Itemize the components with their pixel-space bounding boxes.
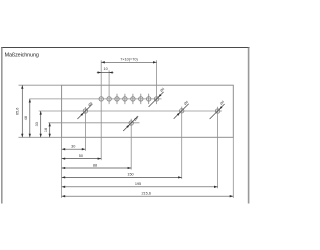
svg-text:195: 195 bbox=[135, 182, 141, 186]
svg-text:65,6: 65,6 bbox=[16, 108, 20, 115]
plate outline bbox=[62, 85, 234, 137]
svg-text:48: 48 bbox=[24, 116, 28, 120]
small hole 7 row1 bbox=[147, 97, 151, 101]
extension line hole1 vertical bbox=[100, 60, 102, 160]
leader hole B bbox=[123, 116, 139, 131]
centerline hole row 3 bbox=[48, 122, 139, 124]
hole A bbox=[83, 107, 87, 151]
svg-text:Ø4: Ø4 bbox=[133, 116, 139, 122]
leader small hole 8 bbox=[149, 87, 166, 107]
extension line hole8 vertical bbox=[156, 60, 158, 104]
leader hole D bbox=[210, 100, 226, 119]
hole C bbox=[180, 107, 184, 179]
dimension 65,6 bbox=[16, 85, 24, 137]
leader hole C bbox=[174, 100, 189, 119]
extension plate top edge left bbox=[19, 84, 62, 86]
dimension 48 bbox=[24, 99, 31, 137]
extension plate right edge down bbox=[232, 137, 234, 198]
dimension 195 bbox=[62, 182, 218, 188]
dimension 150 bbox=[62, 173, 182, 179]
svg-text:18: 18 bbox=[44, 128, 48, 132]
svg-text:Ø4: Ø4 bbox=[87, 101, 93, 107]
small hole 8 row1 bbox=[154, 97, 158, 101]
svg-text:Ø4: Ø4 bbox=[159, 87, 165, 93]
dimension 50 bbox=[62, 154, 102, 160]
hole B bbox=[129, 119, 133, 170]
svg-text:30: 30 bbox=[71, 145, 75, 149]
frame top border bbox=[1, 47, 250, 49]
svg-text:50: 50 bbox=[79, 154, 83, 158]
dimension 30 bbox=[62, 145, 86, 151]
small hole 3 row1 bbox=[115, 97, 119, 101]
leader hole A bbox=[77, 101, 93, 119]
svg-text:33: 33 bbox=[35, 122, 39, 126]
small hole 4 row1 bbox=[123, 97, 127, 101]
svg-text:88: 88 bbox=[93, 163, 97, 167]
svg-text:215,6: 215,6 bbox=[141, 192, 151, 196]
svg-text:Ø4: Ø4 bbox=[183, 100, 189, 106]
svg-text:10: 10 bbox=[103, 67, 107, 71]
dimension 10 bbox=[97, 67, 114, 73]
small hole 6 row1 bbox=[139, 97, 143, 101]
svg-text:150: 150 bbox=[127, 173, 133, 177]
dimension 215,6 bbox=[62, 192, 234, 198]
dimension 88 bbox=[62, 163, 132, 169]
centerline hole row 2 bbox=[39, 110, 222, 112]
small hole 1 row1 bbox=[99, 97, 103, 101]
dimension 18 bbox=[44, 123, 51, 138]
dimension 33 bbox=[35, 111, 42, 137]
dimension 7x10=70 bbox=[101, 58, 156, 64]
small hole 2 row1 bbox=[107, 97, 111, 101]
extension plate bottom edge left bbox=[19, 136, 62, 138]
extension plate left edge down bbox=[61, 137, 63, 198]
extension line hole2 vertical bbox=[108, 70, 110, 104]
svg-text:7×10(=70): 7×10(=70) bbox=[120, 58, 138, 62]
svg-text:Maßzeichnung: Maßzeichnung bbox=[5, 53, 39, 59]
centerline hole row 1 bbox=[29, 98, 161, 100]
frame right border bbox=[248, 48, 250, 204]
small hole 5 row1 bbox=[131, 97, 135, 101]
hole D bbox=[215, 107, 219, 189]
frame left border bbox=[1, 48, 3, 204]
